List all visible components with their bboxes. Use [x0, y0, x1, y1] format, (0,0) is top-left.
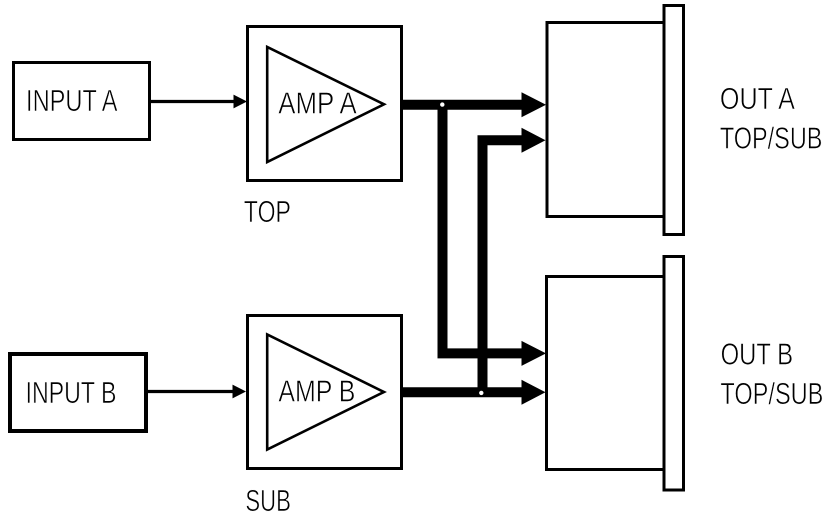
svg-text:AMP B: AMP B [278, 374, 355, 409]
speaker OUT B cabinet [547, 277, 665, 470]
speaker OUT A cabinet [547, 23, 664, 217]
box INPUT A [14, 63, 150, 140]
svg-text:AMP A: AMP A [278, 85, 357, 120]
op-amp triangle A [267, 47, 384, 162]
wire arrow INPUT A to AMP A [151, 95, 247, 109]
junction node on AMP B output [479, 391, 483, 395]
thick wire AMP A output to OUT A (top feed) [403, 92, 546, 117]
svg-text:TOP: TOP [244, 194, 291, 229]
svg-text:TOP/SUB: TOP/SUB [720, 121, 823, 156]
thick wire AMP B output to OUT B (bottom feed) [403, 380, 546, 405]
speaker OUT B flange [664, 257, 684, 491]
op-amp triangle B [267, 335, 384, 450]
svg-text:OUT A: OUT A [720, 81, 795, 116]
svg-text:TOP/SUB: TOP/SUB [720, 376, 823, 411]
amp block AMP A (TOP) [248, 27, 402, 181]
svg-text:OUT B: OUT B [721, 336, 794, 371]
amp block AMP B (SUB) [248, 316, 402, 469]
junction node on AMP A output [440, 102, 444, 106]
box INPUT B [10, 354, 146, 431]
svg-text:INPUT A: INPUT A [26, 83, 118, 118]
svg-text:SUB: SUB [245, 483, 291, 518]
wire arrow INPUT B to AMP B [148, 385, 246, 399]
thick wire branch from A junction down to OUT B (top feed) [443, 100, 547, 366]
svg-text:INPUT B: INPUT B [26, 375, 117, 410]
speaker OUT A flange [664, 6, 684, 235]
thick wire branch from B junction up to OUT A (bottom feed) [483, 128, 546, 397]
